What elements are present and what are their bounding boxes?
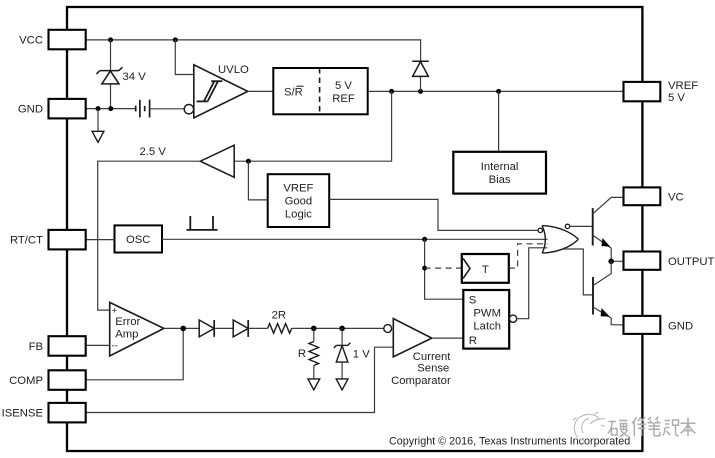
- node: output junction: [608, 259, 614, 265]
- wire: comparator output to PWM latch R: [432, 337, 464, 339]
- svg-text:5 V: 5 V: [668, 92, 685, 104]
- wire: stub to ground symbol: [97, 109, 99, 131]
- transistor Q1 upper: [592, 208, 594, 245]
- ground symbol below GND pin: [92, 131, 104, 142]
- node: OSC-S junction: [422, 237, 427, 242]
- ground below 1V zener: [336, 379, 348, 390]
- block VREF Good Logic: [268, 174, 330, 227]
- wire: gate output to lower transistor base: [564, 249, 592, 295]
- transistor Q2 lower: [592, 277, 594, 315]
- svg-text:Bias: Bias: [489, 174, 511, 186]
- wire: internal bias feed: [498, 91, 500, 151]
- node: COMP junction: [180, 326, 186, 332]
- svg-text:Copyright © 2016, Texas Instru: Copyright © 2016, Texas Instruments Inco…: [389, 436, 630, 448]
- pin COMP: [49, 370, 86, 390]
- wire: VCC rail from VCC pin to bootstrap diode corner: [86, 40, 421, 61]
- svg-text:Sense: Sense: [417, 362, 449, 374]
- wire: ISENSE pin to comparator + input: [86, 347, 394, 412]
- pin OUTPUT: [624, 252, 661, 270]
- wire: VREF good logic output to NOR gate input: [329, 199, 538, 230]
- pin VREF: [624, 82, 661, 101]
- pin GND right: [624, 316, 661, 334]
- wire: buffer output to error amp + input: [98, 161, 201, 310]
- svg-text:PWM: PWM: [473, 308, 501, 320]
- svg-text:OSC: OSC: [126, 234, 150, 246]
- svg-text:UVLO: UVLO: [218, 64, 249, 76]
- svg-text:34 V: 34 V: [123, 71, 147, 83]
- wire: OSC output to NOR gate: [162, 238, 548, 240]
- svg-text:GND: GND: [668, 320, 693, 332]
- battery offset source: [136, 100, 150, 118]
- svg-text:R: R: [469, 335, 477, 347]
- pin VCC: [49, 30, 86, 50]
- pin ISENSE: [49, 403, 86, 423]
- clock waveform symbol: [187, 216, 218, 230]
- wire: RT/CT pin to OSC: [86, 239, 115, 241]
- wire: zener branch from VCC rail down to GND wire: [110, 40, 112, 71]
- gate NOR (output stage driver): [542, 226, 578, 254]
- svg-text:VC: VC: [668, 191, 684, 203]
- svg-text:T: T: [482, 264, 489, 276]
- diode D1: [199, 320, 214, 337]
- node: GND-ground junction: [96, 106, 101, 111]
- svg-text:VCC: VCC: [19, 34, 43, 46]
- wire: dashed T input: [425, 267, 462, 269]
- wire: FB pin to error amp: [86, 344, 110, 346]
- op-amp UVLO comparator: [194, 65, 248, 118]
- node: VCC-zener junction: [108, 37, 113, 42]
- node: 1V clamp junction: [339, 326, 345, 332]
- wire: error amp output to diode D1: [164, 327, 199, 329]
- op-amp Error Amp: [110, 302, 164, 356]
- svg-text:GND: GND: [18, 104, 43, 116]
- node: GND-zener junction: [108, 106, 113, 111]
- svg-text:Logic: Logic: [285, 209, 312, 221]
- node: internal bias junction: [496, 89, 501, 94]
- wire: D1 to D2: [214, 327, 233, 329]
- wire: UVLO output to S/R block: [248, 90, 273, 92]
- pin GND left: [49, 99, 86, 119]
- wire: divider node to comparator bubble: [292, 327, 384, 329]
- svg-text:Good: Good: [285, 196, 313, 208]
- buffer 2.5V (left-pointing): [200, 145, 234, 177]
- diode VCC-to-VREF bootstrap: [420, 77, 422, 92]
- wire: D2 to resistor 2R: [248, 327, 267, 329]
- wire: UVLO non-inverting input branch: [175, 40, 193, 75]
- svg-text:Latch: Latch: [473, 321, 501, 333]
- zener diode 34 V: [96, 67, 122, 84]
- svg-text:Current: Current: [413, 351, 452, 363]
- wire: GND pin to battery: [86, 108, 136, 110]
- svg-text:Error: Error: [115, 316, 140, 328]
- svg-text:S: S: [469, 295, 477, 307]
- svg-text:+: +: [112, 306, 118, 317]
- node: VCC-UVLO junction: [173, 37, 178, 42]
- wire: PWM latch output to NOR gate: [517, 248, 548, 319]
- wire: S input feed: [425, 239, 464, 299]
- wire: VREF rail to VREF pin: [368, 90, 624, 92]
- wire: battery to UVLO inverting bubble: [150, 108, 185, 110]
- resistor 2R: [268, 324, 292, 334]
- latch PWM: [463, 290, 509, 349]
- svg-text:VREF: VREF: [668, 80, 698, 92]
- svg-text:VREF: VREF: [283, 183, 313, 195]
- wire: COMP pin to error amp output: [86, 328, 183, 379]
- zener diode 1 V: [341, 328, 343, 345]
- svg-text:FB: FB: [29, 341, 43, 353]
- wire: dashed T output to NOR gate: [509, 244, 548, 268]
- svg-text:5 V: 5 V: [335, 80, 352, 92]
- svg-text:REF: REF: [332, 93, 355, 105]
- node: R divider junction: [311, 326, 317, 332]
- svg-text:1 V: 1 V: [353, 348, 370, 360]
- svg-text:2.5 V: 2.5 V: [140, 146, 167, 158]
- node: bootstrap diode junction: [418, 89, 423, 94]
- block S/R + 5V REF: [273, 68, 367, 114]
- svg-text:--: --: [112, 340, 118, 351]
- svg-text:2R: 2R: [272, 310, 286, 322]
- svg-text:Internal: Internal: [481, 161, 519, 173]
- IC boundary box: [67, 7, 642, 451]
- svg-text:RT/CT: RT/CT: [10, 235, 43, 247]
- pin RT/CT: [49, 230, 86, 250]
- pin VC: [624, 187, 661, 205]
- svg-text:ISENSE: ISENSE: [2, 408, 44, 420]
- block Internal Bias: [453, 152, 546, 194]
- svg-text:S/R: S/R: [284, 86, 303, 98]
- node: VREF good branch junction: [246, 159, 251, 164]
- ground below R: [308, 379, 320, 390]
- hysteresis symbol inside UVLO: [197, 81, 223, 101]
- node: T branch junction: [422, 266, 427, 271]
- svg-text:Comparator: Comparator: [391, 375, 451, 387]
- watermark logo sketch: [573, 412, 605, 440]
- node: 2.5V branch junction: [389, 89, 394, 94]
- pin FB: [49, 336, 86, 356]
- flip-flop T: [462, 254, 509, 283]
- svg-text:R: R: [298, 348, 306, 360]
- watermark text 硬件笔记本 (drawn strokes): [608, 417, 696, 437]
- svg-text:COMP: COMP: [9, 375, 43, 387]
- wire: gate inverted output to upper transistor base: [570, 225, 592, 227]
- diode D2: [233, 320, 248, 337]
- block OSC: [115, 225, 163, 252]
- op-amp Current Sense Comparator: [393, 319, 432, 357]
- svg-text:OUTPUT: OUTPUT: [668, 256, 715, 268]
- svg-text:Amp: Amp: [115, 328, 138, 340]
- wire: VREF good logic feed: [248, 161, 267, 200]
- resistor R: [313, 328, 315, 341]
- wire: 2.5V reference branch: [234, 91, 391, 161]
